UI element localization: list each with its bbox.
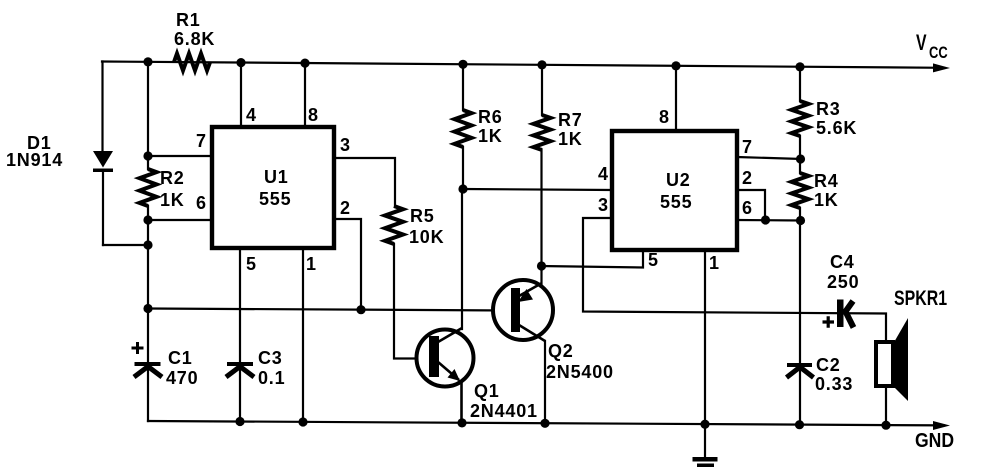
svg-text:4: 4 [598,164,608,184]
wire U2 pin6 row [737,219,801,222]
svg-text:5: 5 [246,254,256,274]
wire D1 bottom horizontal to node [103,244,148,246]
resistor R5 [385,206,403,244]
svg-text:GND: GND [915,429,954,451]
resistor R1 [174,54,210,71]
svg-text:7: 7 [196,131,206,151]
svg-text:0.33: 0.33 [815,374,853,394]
svg-text:1K: 1K [558,129,583,149]
svg-text:2: 2 [742,168,752,188]
svg-text:R1: R1 [176,10,201,30]
resistor R3 [792,101,809,136]
op-amp U2 box 555 [612,131,737,250]
svg-text:C4: C4 [830,252,855,272]
wire R7 bottom [540,150,542,266]
plus sign C1 [132,342,144,354]
svg-text:Q2: Q2 [548,341,574,361]
wire speaker bottom lead [885,386,887,425]
node top rail R6 [458,60,467,69]
svg-text:555: 555 [259,189,291,209]
svg-text:C2: C2 [816,355,841,375]
svg-text:1K: 1K [814,190,839,210]
node mid rail left [143,304,152,313]
svg-text:CC: CC [929,43,948,62]
wire R6 top [462,64,464,110]
svg-text:C1: C1 [168,348,193,368]
op-amp U1 box 555 [212,127,334,248]
wire mid rail to Q2 base [148,309,512,311]
svg-text:555: 555 [660,192,692,212]
wire U2 pin7 row [737,157,801,159]
svg-text:8: 8 [308,105,318,125]
svg-text:R3: R3 [816,99,841,119]
node top rail R7 [537,60,546,69]
plus sign C4 [823,316,835,328]
node bottom U1 pin1 [298,417,307,426]
svg-text:470: 470 [166,368,198,388]
capacitor C4 [837,300,854,328]
svg-text:C3: C3 [258,348,283,368]
svg-text:R6: R6 [478,107,503,127]
wire U1 pin2 bend [334,219,361,310]
svg-text:5.6K: 5.6K [816,118,857,138]
svg-text:6.8K: 6.8K [174,29,215,49]
svg-text:6: 6 [742,198,752,218]
svg-text:5: 5 [648,250,658,270]
svg-text:2N4401: 2N4401 [470,401,538,421]
wire U1 pin4 vertical [240,63,242,129]
svg-text:8: 8 [659,107,669,127]
node U2 pin2 pin6 [761,215,770,224]
wire D1 branch top vertical [101,62,103,153]
svg-text:R7: R7 [558,110,583,130]
wire R3 to R4 node [799,136,801,173]
wire left column x=148 lower through C1 [147,206,149,421]
wire U1 pin6 row [148,219,212,221]
wire R3 top [799,67,801,101]
svg-text:R5: R5 [410,206,435,226]
svg-text:1K: 1K [478,126,503,146]
node pin7 R2 [143,151,152,160]
svg-text:4: 4 [246,105,256,125]
capacitor C3 [226,362,254,377]
node bottom ground [700,420,709,429]
wire U1 pin5 vertical through C3 [239,248,241,422]
svg-text:1K: 1K [160,190,185,210]
wire D1 branch bottom vertical [102,170,104,245]
capacitor C2 [787,363,814,378]
svg-text:1N914: 1N914 [6,150,63,170]
transistor Q2 [493,280,553,341]
node top rail R1 left [143,57,152,66]
node R6 pin4 [458,184,467,193]
node bottom C3 [235,417,244,426]
transistor Q1 [417,328,474,423]
svg-text:3: 3 [598,195,608,215]
svg-text:2N5400: 2N5400 [546,362,614,382]
capacitor C1 [134,362,162,377]
node pin6 R2 [143,215,152,224]
node bottom Q2 collector [540,419,549,428]
node bottom C2 [795,420,804,429]
svg-text:SPKR1: SPKR1 [894,287,947,311]
svg-text:250: 250 [827,272,859,292]
wire U2 pin5 row [540,250,643,268]
wire R6 bottom [462,147,464,189]
wire right column x=800 through C2 [799,221,801,425]
wire left column x=148 upper [147,62,149,169]
node top rail U2 pin8 [671,61,680,70]
svg-text:0.1: 0.1 [258,368,285,388]
wire Q2 collector vertical [544,341,546,423]
svg-text:V: V [916,32,927,56]
svg-text:R4: R4 [814,171,839,191]
wire U2 pin2 bend [737,190,765,220]
wire Q1 collector vertical [461,190,463,330]
node top rail pin8 [300,59,309,68]
svg-text:2: 2 [340,198,350,218]
wire Vcc top rail [102,62,944,68]
wire U1 pin7 row [148,155,212,157]
wire U2 pin1 vertical [704,252,706,424]
svg-text:U1: U1 [264,167,289,187]
node D1 join [143,240,152,249]
wire U1 pin3 row [334,158,395,206]
arrow GND [933,421,950,430]
node R7 Q2 emitter [537,261,546,270]
node top rail R3 [795,62,804,71]
wire U1 pin1 vertical [302,248,304,422]
svg-text:U2: U2 [666,170,691,190]
node U2 pin6 R4 [796,216,805,225]
arrow Vcc [933,63,950,72]
node top rail pin4 [236,58,245,67]
wire U1 pin8 vertical [304,63,306,129]
wire R7 top [541,65,543,115]
svg-text:1: 1 [306,254,316,274]
node pin2 drop [356,305,365,314]
svg-text:1: 1 [709,253,719,273]
svg-text:R2: R2 [160,168,185,188]
wire Q2 emitter vertical [540,266,542,284]
svg-text:3: 3 [340,135,350,155]
diode D1 [93,151,113,172]
ground [693,457,718,467]
resistor R6 [455,110,472,147]
wire U2 pin4 row [463,189,612,190]
wire ground stub [704,424,706,457]
svg-text:Q1: Q1 [474,381,500,401]
svg-text:6: 6 [196,193,206,213]
svg-text:10K: 10K [409,227,444,247]
wire GND bottom rail [148,421,944,425]
node bottom Q1 emitter [457,418,466,427]
svg-text:7: 7 [742,137,752,157]
wire R4 bottom [799,208,801,221]
wire R5 bottom to Q1 base [394,244,430,359]
resistor R2 [140,169,157,206]
speaker SPKR1 [876,318,908,401]
resistor R7 [534,115,551,150]
resistor R4 [792,173,809,208]
node U2 pin7 R3 R4 [796,154,805,163]
wire U2 pin8 vertical [675,66,677,133]
wire U2 pin3 bend long rail to speaker [583,218,886,344]
node bottom speaker [881,421,890,430]
